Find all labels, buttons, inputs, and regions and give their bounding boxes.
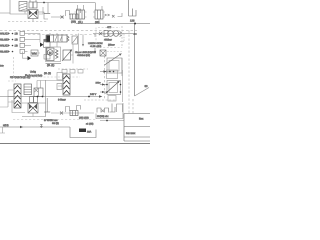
solenoid coil pair K2	[30, 97, 38, 103]
callout leader to label 60	[135, 85, 150, 96]
svg-text:60: 60	[145, 85, 148, 88]
svg-text:Gd (2): Gd (2)	[52, 122, 59, 125]
dashed vertical wire D3	[132, 99, 134, 114]
svg-text:450bar: 450bar	[104, 38, 112, 41]
annotation text rows below relief	[88, 42, 103, 48]
svg-text:WM: WM	[32, 52, 38, 56]
connector CV1 down	[46, 47, 48, 54]
striped cooler box S2	[24, 84, 32, 95]
check valve X3	[60, 112, 63, 115]
inline valve block V2	[70, 14, 78, 19]
small box below CV1	[44, 55, 50, 60]
servo entry wire 1	[100, 83, 121, 85]
bottom annotation texts	[40, 119, 59, 128]
title block	[124, 114, 150, 142]
svg-text:1B: 1B	[15, 39, 18, 42]
dashed bracket right	[120, 34, 124, 42]
svg-text:N3.GE: N3.GE	[0, 51, 8, 54]
svg-text:20A: 20A	[87, 131, 92, 134]
top bus wire P	[76, 23, 150, 25]
tank T1	[44, 12, 50, 14]
stack port wires	[8, 90, 14, 102]
main right vertical wire	[134, 24, 136, 97]
pump P1 with arrow	[62, 50, 72, 62]
pilot component right of block	[72, 36, 78, 44]
servo entry wire 2	[100, 91, 121, 93]
node J4b	[42, 96, 44, 98]
lower inline wire	[51, 112, 94, 114]
spring at valve block right	[67, 36, 69, 42]
dashed vertical at relief right	[121, 26, 123, 48]
dashed bottom of lower section	[13, 119, 96, 121]
stack S3 port wires	[58, 80, 63, 86]
relief body	[104, 31, 108, 37]
pump inlet wire with arrow	[100, 70, 114, 72]
svg-text:3B(2B) x2x: 3B(2B) x2x	[97, 115, 109, 118]
node J1	[43, 2, 45, 4]
gauge circle G2	[113, 31, 119, 37]
upper small box of servo assembly	[107, 70, 118, 79]
relief check x	[99, 32, 102, 35]
tank T1 drop wire	[47, 3, 49, 14]
inline valve block V6	[70, 111, 78, 116]
small component box row	[97, 108, 109, 113]
svg-text:+10Mxd (12): +10Mxd (12)	[77, 54, 90, 57]
pump outlet wire	[71, 44, 74, 64]
signal row 2	[0, 37, 40, 41]
check valve X2	[112, 15, 115, 18]
tank T2 top right	[129, 0, 137, 16]
svg-text:W3.KD: W3.KD	[0, 45, 8, 48]
svg-text:L2S/D8 42OM: L2S/D8 42OM	[88, 42, 103, 45]
tank T4	[110, 104, 116, 113]
directional valve V1 (crossed)	[28, 10, 38, 19]
check valve CV1 with box	[40, 42, 50, 48]
svg-text:u(12): u(12)	[3, 124, 9, 127]
small box left of S3	[57, 84, 62, 90]
svg-text:x2 (2B): x2 (2B)	[86, 123, 94, 126]
small crossed box above pump	[100, 50, 106, 56]
svg-text:(2B): (2B)	[71, 21, 76, 24]
motor M1	[47, 48, 55, 61]
svg-text:240v: 240v	[96, 82, 102, 85]
pump control valve block	[46, 35, 67, 42]
drawing border bottom line	[0, 143, 150, 145]
relief assembly wire	[93, 33, 133, 35]
node J2 on bus	[134, 23, 136, 25]
svg-text:3xx xxxx: 3xx xxxx	[126, 132, 136, 135]
wire stub to inline cluster	[51, 16, 64, 18]
tank T3 lower middle	[44, 98, 50, 112]
label box WM	[31, 50, 38, 56]
gauge circle G1	[108, 31, 114, 37]
wire stubs above valve block	[50, 33, 57, 35]
wire CV2 link	[23, 52, 41, 59]
small L fitting	[118, 13, 123, 17]
bracket stub B4	[77, 106, 81, 111]
annotation text right of unit	[75, 51, 96, 57]
valve V1 bottom stub	[32, 19, 34, 22]
small terminal boxes row	[62, 70, 83, 74]
svg-text:(2Bxxr: (2Bxxr	[108, 44, 115, 47]
wire bend to check valve CV1	[39, 34, 41, 43]
dashed vertical wire D1	[128, 31, 130, 114]
svg-text:(2L (1): (2L (1)	[44, 72, 51, 75]
svg-text:128: 128	[130, 19, 135, 22]
svg-text:N3.GE: N3.GE	[0, 39, 8, 42]
svg-text:1B: 1B	[15, 45, 18, 48]
bracket stub B3	[66, 107, 70, 113]
bracket stub B1	[66, 11, 70, 17]
pilot drain wire	[78, 34, 80, 57]
arrow on return wire	[20, 126, 23, 129]
variable pump assembly	[105, 54, 123, 77]
signal row 1	[0, 31, 40, 35]
dashed line under bus	[84, 99, 116, 101]
node J5	[88, 96, 90, 98]
arrow on bus	[99, 95, 102, 98]
text banner Fahrantrieb	[25, 71, 43, 78]
collector wire to title block	[100, 120, 124, 122]
svg-text:9-Baur: 9-Baur	[58, 99, 66, 102]
dashed top of lower section	[8, 77, 80, 81]
svg-text:(3L (1): (3L (1)	[47, 64, 54, 67]
svg-text:Bxx: Bxx	[139, 118, 144, 121]
check valve X1	[61, 16, 64, 19]
dashed separator line 1	[0, 30, 137, 32]
dashed enclosure around relief	[96, 28, 122, 49]
node J6	[106, 120, 108, 122]
spring stack S3	[63, 74, 70, 95]
svg-text:240 V: 240 V	[90, 93, 97, 96]
svg-text:(2B) (1B): (2B) (1B)	[79, 117, 89, 120]
upper wires of lower manifold	[37, 81, 64, 89]
signal row 4	[0, 49, 28, 53]
pilot down arrow	[94, 48, 96, 54]
unit base line	[46, 63, 62, 65]
dashed drain line	[58, 68, 88, 70]
dashed bottom of manifold A	[8, 21, 48, 23]
spring marks right of V4	[105, 14, 110, 16]
wire step from V1	[38, 12, 48, 19]
lower right enclosure	[96, 103, 123, 119]
servo valve box	[106, 81, 121, 95]
junction tick on vertical wire	[133, 33, 137, 35]
enclosure box top-left manifold	[10, 0, 43, 14]
spring stack accumulator S1	[14, 84, 21, 108]
pilot stub	[94, 34, 96, 38]
servo lower box	[108, 96, 116, 102]
wire top bus from V1	[37, 2, 95, 4]
dashed pilot to bracket	[107, 51, 122, 53]
solenoid coil pair K1	[29, 0, 37, 8]
valve V5 drop	[32, 113, 34, 117]
lower manifold enclosure	[22, 80, 46, 117]
left drop wire	[0, 90, 8, 107]
directional valve V5 (crossed)	[28, 103, 38, 113]
dashed separator line 2	[28, 34, 122, 36]
svg-text:W3.KD: W3.KD	[0, 33, 8, 36]
signal row 3	[0, 43, 31, 47]
motor unit outer box	[46, 47, 61, 62]
bracket stub B2	[77, 9, 81, 14]
spring SP1	[56, 50, 59, 59]
pilot box lower manifold	[34, 88, 43, 97]
manifold cross wire	[22, 102, 46, 104]
small box above S3	[57, 73, 63, 81]
cooler hatched box A	[19, 2, 27, 14]
servo assembly right edge	[122, 70, 124, 102]
svg-text:1B: 1B	[15, 33, 18, 36]
valve V4 with bracket	[93, 3, 105, 20]
stub wire left edge	[0, 12, 10, 14]
lower bus wire	[0, 96, 99, 98]
left corner drop	[0, 127, 5, 133]
dashed vertical wire D2	[104, 56, 106, 100]
corner wire inside manifold	[12, 100, 25, 113]
left return wire	[0, 127, 70, 130]
wire valve drops to bus	[80, 19, 99, 24]
node J4	[37, 96, 39, 98]
valve V3 with coil stubs	[75, 5, 87, 19]
return tray tank	[70, 129, 96, 138]
dashed enclosure left edge	[13, 57, 15, 77]
bracket B5	[117, 104, 123, 112]
svg-text:Clean LINE (12)/OM: Clean LINE (12)/OM	[75, 51, 96, 54]
pilot line with down arrow	[82, 35, 84, 47]
relief spring marks	[120, 32, 122, 37]
check valve X4	[102, 110, 105, 113]
check valve CV2	[28, 56, 32, 60]
wire valve block to motor	[56, 42, 58, 47]
svg-text:M: M	[49, 51, 52, 55]
